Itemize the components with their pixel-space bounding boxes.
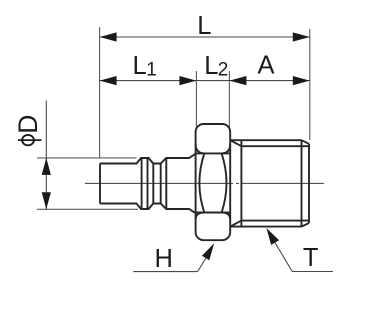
centerline xyxy=(85,182,324,184)
extension line ring top diameter xyxy=(37,157,137,159)
svg-text:2: 2 xyxy=(218,60,229,81)
svg-text:T: T xyxy=(303,244,319,272)
svg-text:L: L xyxy=(197,12,211,40)
extension line left end of plug xyxy=(99,27,101,158)
extension line ring bottom diameter xyxy=(37,208,138,210)
extension line hex left face xyxy=(195,71,197,128)
svg-text:A: A xyxy=(258,52,275,80)
dimension line phi D xyxy=(45,101,47,210)
hex nut H xyxy=(196,124,231,240)
leader line T xyxy=(275,242,334,272)
svg-text:L: L xyxy=(133,52,147,80)
svg-text:1: 1 xyxy=(146,60,157,81)
leader line H xyxy=(133,257,206,272)
svg-text:L: L xyxy=(204,52,218,80)
male pipe thread T xyxy=(230,140,309,226)
svg-text:H: H xyxy=(155,245,173,273)
dimension line L xyxy=(100,36,310,38)
extension line hex right face xyxy=(228,71,230,128)
extension line right end of thread xyxy=(309,29,311,140)
dimension line L1 L2 A xyxy=(100,80,310,82)
plug stem and locking-groove profile xyxy=(100,154,196,214)
svg-text:D: D xyxy=(13,115,43,134)
